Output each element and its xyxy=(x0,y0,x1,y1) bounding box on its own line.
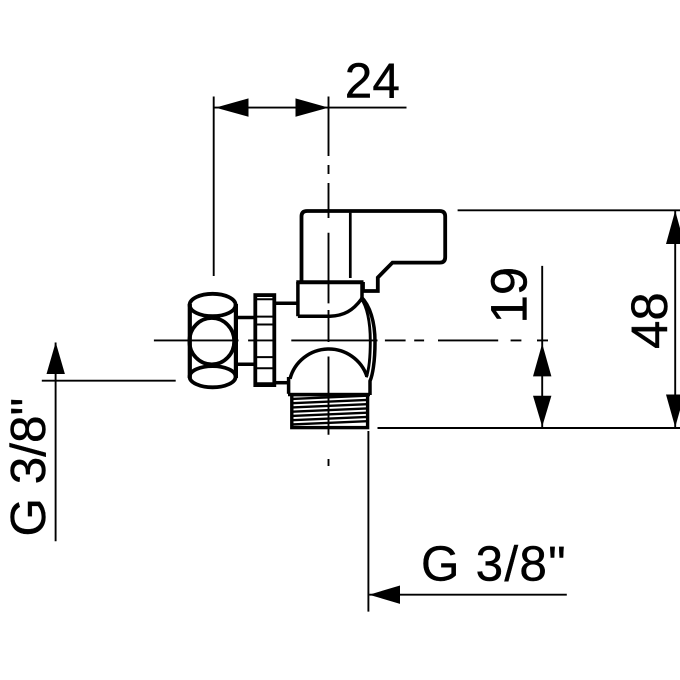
body arch over outlet xyxy=(290,349,367,379)
bonnet plate xyxy=(296,280,363,284)
upper body right edge xyxy=(360,282,364,299)
svg-text:48: 48 xyxy=(621,292,678,349)
thread line 7 xyxy=(292,421,367,424)
dimension line 19 xyxy=(541,266,543,428)
upper body left edge xyxy=(296,282,300,316)
valve handle outline xyxy=(302,211,446,291)
knurled nut outline xyxy=(255,295,274,385)
arrowhead top of 48 dim xyxy=(666,211,680,244)
arrowhead left of 24 dim xyxy=(216,98,249,116)
threaded outlet box xyxy=(292,395,368,428)
vertical centerline of valve xyxy=(328,97,330,467)
reference line left G 3/8 xyxy=(42,380,176,382)
dimension line 48 xyxy=(674,211,676,428)
nut knurl line 5 xyxy=(257,356,273,358)
union cap left edge xyxy=(188,304,192,378)
svg-text:G 3/8": G 3/8" xyxy=(421,536,567,591)
arrowhead top of 19 dim xyxy=(533,344,551,377)
svg-text:24: 24 xyxy=(345,53,400,108)
nut knurl line 1 xyxy=(257,298,273,300)
union cap top ellipse xyxy=(190,294,236,316)
lower body left edge xyxy=(287,377,291,394)
arrowhead bottom of 48 dim xyxy=(666,395,680,428)
thread line 6 xyxy=(292,417,367,420)
extension line from handle top xyxy=(458,209,680,211)
horizontal centerline of valve xyxy=(154,339,548,341)
upper body bottom edge curving right xyxy=(298,299,362,316)
dimension line 24 xyxy=(215,107,407,109)
union cap right edge xyxy=(234,304,238,378)
thread line 4 xyxy=(292,408,367,411)
nut knurl line 3 xyxy=(257,324,273,326)
connector nut to body top xyxy=(275,302,298,306)
svg-text:19: 19 xyxy=(481,267,538,324)
neck top line between cap and nut xyxy=(236,316,255,320)
extension line from thread bottom xyxy=(378,427,680,429)
extension line left of 24 dim xyxy=(213,97,215,277)
connector nut to body bottom xyxy=(275,381,289,385)
neck bottom line xyxy=(288,393,370,396)
leader line bottom G 3/8 xyxy=(369,594,567,596)
arrowhead of bottom G 3/8 leader xyxy=(369,586,400,604)
body right crescent outer xyxy=(361,297,375,395)
body right crescent inner xyxy=(361,299,370,378)
union cap middle sphere xyxy=(189,318,234,364)
thread line 5 xyxy=(292,413,367,416)
arrowhead right of 24 dim xyxy=(296,98,329,116)
nut knurl line 6 xyxy=(257,367,273,369)
union cap bottom ellipse xyxy=(190,366,236,387)
thread line 3 xyxy=(292,404,367,407)
svg-text:G 3/8": G 3/8" xyxy=(1,398,56,537)
leader line left G 3/8 xyxy=(55,343,57,542)
arrowhead bottom of 19 dim xyxy=(533,396,551,427)
neck bottom line between cap and nut xyxy=(236,362,255,366)
thread line 1 xyxy=(292,396,367,399)
handle inner edge line xyxy=(349,213,352,278)
extension line bottom G 3/8 xyxy=(367,431,369,612)
nut knurl line 7 xyxy=(257,382,273,384)
arrowhead of left G 3/8 leader xyxy=(47,342,65,374)
nut knurl line 2 xyxy=(257,316,273,318)
thread line 2 xyxy=(292,400,367,403)
